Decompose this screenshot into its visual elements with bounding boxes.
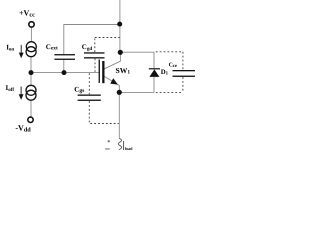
node collector junction <box>118 50 123 55</box>
node top rail junction <box>117 22 122 27</box>
transistor SW1 body bar <box>102 61 104 83</box>
node gate-bus left junction <box>29 70 34 75</box>
wire gate bus <box>31 72 99 74</box>
wire collector node to diode cathode <box>120 52 154 68</box>
arrow Ion direction <box>19 45 24 58</box>
current source Ion <box>26 42 36 57</box>
capacitor Cce (parasitic) <box>173 70 196 77</box>
load current bar <box>123 141 125 150</box>
node emitter junction <box>117 90 122 95</box>
svg-text:load: load <box>125 146 133 150</box>
dashed lead Cce top plate to collector wire <box>156 52 183 70</box>
wire Cext top lead up and over to drain rail <box>64 25 120 55</box>
transistor SW1 gate bar <box>99 60 100 83</box>
dashed lead Cgd bottom plate to gate bus <box>94 59 96 72</box>
wire emitter node down to load <box>118 92 120 139</box>
wire Ion to gate bus junction <box>30 57 32 71</box>
wire emitter node to diode anode <box>119 91 154 93</box>
node Cext-bus junction <box>62 70 67 75</box>
svg-text:Cce: Cce <box>169 62 177 69</box>
wire Ioff to -Vdd terminal <box>30 100 32 117</box>
wire junction to Ioff <box>30 75 32 86</box>
wire collector lead into SW1 <box>104 52 121 69</box>
diode D1 triangle <box>149 69 159 77</box>
wire main collector rail from top edge <box>119 0 121 52</box>
dashed lead Cgs top plate to gate bus <box>88 73 90 94</box>
load inductor squiggle at bottom <box>118 139 121 150</box>
transistor SW1 emitter arrow <box>110 78 118 84</box>
capacitor Cgd (parasitic) <box>84 52 105 58</box>
terminal -Vdd <box>28 117 33 122</box>
dashed lead Cce bottom plate to emitter wire <box>156 77 183 92</box>
diode D1 cathode bar <box>149 68 160 69</box>
mark left dash <box>105 148 110 149</box>
wire Cext bottom lead to bus <box>63 60 65 73</box>
capacitor Cgs (parasitic) <box>78 95 101 101</box>
capacitor Cext <box>54 54 75 60</box>
current source Ioff <box>26 85 36 100</box>
wire emitter lead of SW1 <box>104 76 119 92</box>
wire diode anode down to emitter wire <box>153 77 155 93</box>
mark left dot <box>108 140 110 142</box>
dashed lead Cgs bottom plate to source wire <box>89 101 118 123</box>
terminal +Vcc <box>29 22 34 27</box>
dashed lead Cgd top plate to drain rail <box>95 38 120 53</box>
wire +Vcc terminal to Ion <box>30 28 32 42</box>
arrow Ioff direction <box>19 87 24 100</box>
